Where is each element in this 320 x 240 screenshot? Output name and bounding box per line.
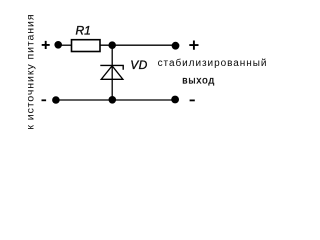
svg-text:к источнику питания: к источнику питания xyxy=(24,14,36,130)
resistor R1 xyxy=(72,40,101,52)
node: output - terminal dot xyxy=(171,96,179,104)
node: input + terminal dot xyxy=(54,41,62,49)
terminal - (output) xyxy=(190,99,195,101)
terminal - (input) xyxy=(42,99,47,101)
wire: bottom rail xyxy=(56,99,175,101)
node: junction bottom VD/rail xyxy=(109,96,117,104)
wire: VD vertical branch xyxy=(111,45,113,100)
terminal + (output) xyxy=(189,41,198,50)
wire: R1 to output + terminal xyxy=(100,44,176,46)
svg-text:R1: R1 xyxy=(76,24,91,38)
node: junction top R1/VD xyxy=(108,41,116,49)
svg-text:выход: выход xyxy=(182,76,215,87)
svg-text:VD: VD xyxy=(130,58,147,72)
node: output + terminal dot xyxy=(172,42,180,50)
wire: input + dot to R1 xyxy=(58,44,71,46)
zener diode VD: cathode bar with hook xyxy=(100,65,123,69)
node: input - terminal dot xyxy=(52,96,60,104)
terminal + (input) xyxy=(42,41,50,49)
zener diode VD: triangle (anode up) xyxy=(101,66,123,80)
svg-text:стабилизированный: стабилизированный xyxy=(158,57,268,69)
